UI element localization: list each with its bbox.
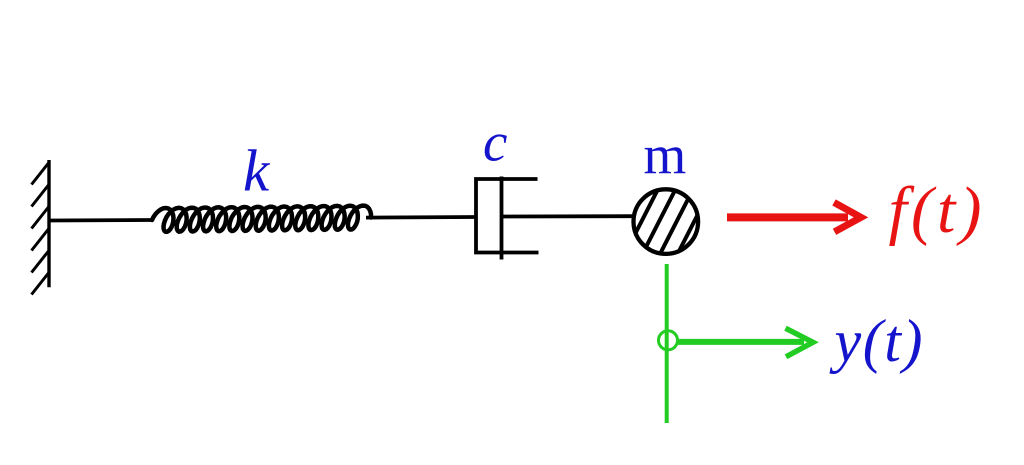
- wall hatch 1: [32, 163, 49, 185]
- mass m circle: [634, 189, 699, 254]
- wall (fixed support): [47, 160, 50, 287]
- svg-text:k: k: [243, 138, 271, 204]
- svg-text:y(t): y(t): [829, 308, 923, 374]
- y arrow head: [786, 328, 814, 357]
- svg-text:c: c: [483, 112, 507, 173]
- wire damper to mass: [502, 214, 634, 218]
- damper piston plate: [500, 177, 504, 260]
- spring k: [152, 206, 371, 232]
- wall hatch 4: [32, 229, 49, 251]
- force arrow f(t) head: [834, 202, 861, 231]
- mass m hatch lines: [618, 177, 720, 295]
- damper c cylinder: [476, 179, 539, 253]
- origin circle: [659, 331, 678, 350]
- wall hatch 2: [32, 185, 49, 207]
- wire spring to damper: [366, 215, 477, 219]
- force arrow f(t) shaft: [727, 213, 848, 221]
- svg-text:f(t): f(t): [889, 174, 982, 247]
- y-axis vertical line (green): [665, 264, 669, 423]
- svg-text:m: m: [644, 124, 687, 185]
- y arrow shaft: [678, 339, 804, 345]
- wall hatch 5: [32, 251, 49, 273]
- wall hatch 3: [32, 207, 49, 229]
- wall hatch 6: [32, 273, 49, 295]
- wire wall to spring: [49, 218, 153, 222]
